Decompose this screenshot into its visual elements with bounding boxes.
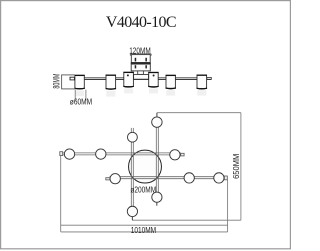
svg-text:ø200MM: ø200MM — [130, 185, 156, 195]
svg-text:80MM: 80MM — [51, 74, 61, 89]
svg-text:ø60MM: ø60MM — [70, 97, 92, 107]
svg-text:1010MM: 1010MM — [131, 225, 156, 235]
svg-text:120MM: 120MM — [129, 45, 151, 55]
svg-text:V4040-10C: V4040-10C — [106, 14, 177, 31]
svg-text:650MM: 650MM — [231, 154, 241, 179]
